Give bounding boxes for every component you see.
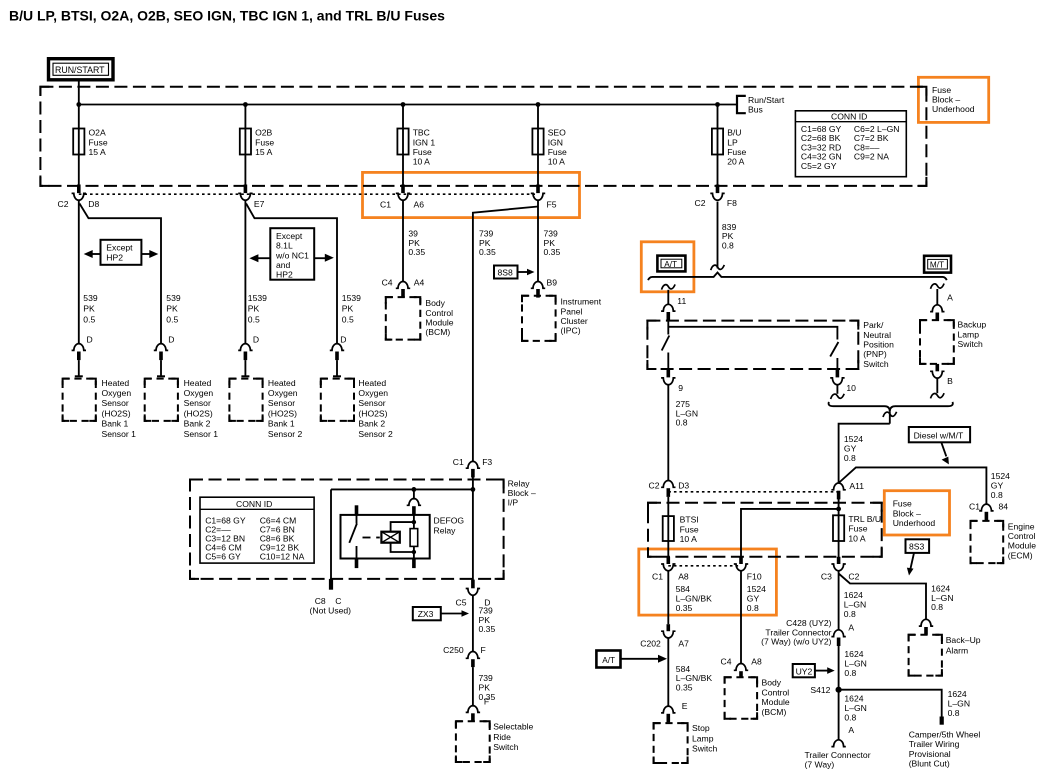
fuse B/U LP 20A	[712, 105, 747, 185]
svg-text:(7 Way): (7 Way)	[805, 760, 835, 770]
highlight box: Fuse Block Underhood (top right)	[918, 77, 988, 122]
option tag M/T	[924, 256, 951, 273]
svg-text:1539: 1539	[248, 293, 267, 303]
svg-text:0.35: 0.35	[408, 247, 425, 257]
option tag Diesel w/M/T	[909, 427, 970, 464]
wire merge brace	[829, 402, 953, 412]
svg-text:0.35: 0.35	[544, 247, 561, 257]
svg-text:D: D	[168, 335, 174, 345]
svg-text:0.5: 0.5	[342, 314, 354, 324]
svg-text:0.8: 0.8	[844, 453, 856, 463]
svg-text:BTSI: BTSI	[680, 515, 699, 525]
wire C2 to A (1624 L-GN 0.8)	[838, 571, 840, 630]
wire break A/T branch	[662, 284, 676, 289]
svg-text:0.8: 0.8	[844, 609, 856, 619]
fuse SEO IGN 10A	[532, 105, 567, 185]
connector C5/D	[456, 580, 491, 608]
svg-text:C1: C1	[652, 572, 663, 582]
svg-text:Position: Position	[863, 340, 894, 350]
connector D (branch 4)	[330, 335, 347, 377]
svg-text:C2: C2	[695, 198, 706, 208]
svg-text:C8: C8	[315, 596, 326, 606]
relay resistor	[413, 515, 415, 529]
svg-text:0.5: 0.5	[248, 314, 260, 324]
connector C2/D8	[58, 185, 100, 210]
svg-text:w/o NC1: w/o NC1	[275, 250, 309, 260]
svg-text:Alarm: Alarm	[946, 645, 968, 655]
Body Control Module (BCM)	[386, 297, 454, 340]
fuse BTSI 10A	[663, 515, 699, 544]
Body Control Module (BCM) lower	[725, 677, 790, 718]
splice 8S8	[494, 266, 535, 279]
svg-text:F10: F10	[747, 572, 762, 582]
RUN/START source box	[49, 59, 114, 80]
svg-text:O2A: O2A	[89, 128, 106, 138]
svg-text:C2: C2	[848, 572, 859, 582]
connector C4/A8 (BCM)	[721, 656, 763, 678]
svg-text:Lamp: Lamp	[958, 329, 980, 339]
svg-text:C2: C2	[649, 481, 660, 491]
svg-text:CONN ID: CONN ID	[236, 499, 272, 509]
svg-text:Oxygen: Oxygen	[102, 388, 132, 398]
svg-text:539: 539	[83, 293, 98, 303]
Relay Block - I/P dashed outline	[190, 480, 504, 579]
svg-text:A6: A6	[414, 200, 425, 210]
svg-text:Trailer Wiring: Trailer Wiring	[909, 739, 960, 749]
svg-text:0.8: 0.8	[676, 418, 688, 428]
label: Camper/5th Wheel Trailer Wiring Provisional (Blunt Cut)	[909, 730, 981, 769]
relay coil link dashes	[363, 537, 371, 539]
wire D3 to BTSI fuse	[667, 497, 669, 516]
svg-text:Sensor 2: Sensor 2	[268, 429, 303, 439]
connector F5	[531, 185, 557, 210]
relay coil	[381, 532, 399, 543]
svg-text:Run/Start: Run/Start	[748, 95, 785, 105]
CONN ID table (Relay Block I/P)	[200, 497, 314, 563]
wire 739 PK 0.35 (C5 to C250)	[472, 595, 474, 652]
svg-text:C1: C1	[380, 200, 391, 210]
svg-text:Sensor 1: Sensor 1	[102, 429, 137, 439]
svg-text:C10=12 NA: C10=12 NA	[260, 552, 305, 562]
svg-text:Bank 2: Bank 2	[184, 419, 211, 429]
svg-text:TBC: TBC	[413, 128, 430, 138]
svg-text:(HO2S): (HO2S)	[184, 408, 213, 418]
svg-text:Park/: Park/	[863, 320, 884, 330]
svg-text:0.8: 0.8	[722, 241, 734, 251]
svg-text:A/T: A/T	[664, 260, 677, 269]
node: bus tap B/U LP	[715, 102, 720, 107]
svg-text:Provisional: Provisional	[909, 749, 951, 759]
svg-text:Fuse: Fuse	[848, 524, 867, 534]
Heated Oxygen Sensor Bank 1 Sensor 1	[63, 378, 137, 439]
wire label 1539 PK 0.5 (branch 4)	[342, 293, 361, 324]
svg-text:0.35: 0.35	[676, 603, 693, 613]
svg-text:F5: F5	[547, 200, 557, 210]
svg-text:Fuse: Fuse	[680, 524, 699, 534]
svg-text:(ECM): (ECM)	[1008, 550, 1033, 560]
svg-text:8S8: 8S8	[498, 268, 514, 278]
svg-text:F3: F3	[482, 457, 492, 467]
svg-text:C1: C1	[453, 457, 464, 467]
splice ZX3	[413, 607, 469, 620]
svg-text:S412: S412	[810, 685, 830, 695]
svg-text:Fuse: Fuse	[255, 137, 274, 147]
svg-text:Fuse: Fuse	[548, 147, 567, 157]
svg-text:(HO2S): (HO2S)	[358, 408, 387, 418]
svg-text:10: 10	[846, 383, 856, 393]
svg-text:11: 11	[677, 296, 686, 306]
wire PNP internal bus	[667, 321, 669, 334]
svg-text:C9=2 NA: C9=2 NA	[854, 152, 889, 162]
svg-text:Lamp: Lamp	[692, 733, 714, 743]
svg-text:RUN/START: RUN/START	[55, 65, 105, 75]
svg-text:HP2: HP2	[106, 252, 123, 262]
wire BTSI to A8	[667, 541, 669, 557]
wire break below brace	[889, 411, 891, 423]
label: Fuse Block - Underhood (lower)	[893, 499, 936, 528]
svg-text:C5: C5	[456, 597, 467, 607]
svg-text:539: 539	[166, 293, 181, 303]
svg-text:B: B	[947, 376, 953, 386]
svg-text:Cluster: Cluster	[561, 316, 588, 326]
option box: Except HP2	[84, 240, 159, 265]
svg-text:Bus: Bus	[748, 104, 763, 114]
svg-text:A4: A4	[414, 277, 425, 287]
Back-Up Alarm	[909, 635, 981, 676]
svg-text:Trailer Connector: Trailer Connector	[805, 750, 871, 760]
svg-text:Bank 2: Bank 2	[358, 419, 385, 429]
svg-text:UY2: UY2	[796, 666, 813, 676]
svg-text:Module: Module	[762, 697, 790, 707]
svg-text:Heated: Heated	[102, 378, 130, 388]
svg-text:0.35: 0.35	[479, 247, 496, 257]
highlight box: connectors A8-F10	[639, 549, 777, 615]
svg-text:Back–Up: Back–Up	[946, 635, 981, 645]
svg-text:(IPC): (IPC)	[561, 326, 581, 336]
svg-text:Neutral: Neutral	[863, 330, 891, 340]
svg-text:(BCM): (BCM)	[425, 327, 450, 337]
svg-text:84: 84	[999, 501, 1009, 511]
connector D (branch 1)	[72, 335, 93, 377]
Heated Oxygen Sensor Bank 1 Sensor 2	[229, 378, 302, 439]
Stop Lamp Switch	[654, 723, 718, 763]
connector C202/A7	[640, 624, 689, 648]
wire relay block feed	[331, 488, 473, 490]
svg-text:F: F	[481, 645, 486, 655]
wire C8 (not used)	[330, 489, 332, 579]
svg-text:A8: A8	[751, 656, 762, 666]
svg-text:1539: 1539	[342, 293, 361, 303]
connector B9	[531, 277, 557, 297]
connector C2/D3	[649, 481, 690, 497]
svg-text:PK: PK	[248, 304, 260, 314]
svg-text:0.8: 0.8	[931, 602, 943, 612]
svg-text:CONN ID: CONN ID	[831, 112, 867, 122]
svg-text:B/U LP, BTSI, O2A, O2B, SEO IG: B/U LP, BTSI, O2A, O2B, SEO IGN, TBC IGN…	[9, 8, 445, 24]
svg-text:Bank 1: Bank 1	[268, 419, 295, 429]
svg-text:SEO: SEO	[548, 128, 566, 138]
svg-text:Block –: Block –	[893, 508, 921, 518]
wire E7 split to branch 4	[246, 204, 337, 344]
svg-text:8S3: 8S3	[909, 542, 925, 552]
wire S412 to trailer connector	[838, 690, 840, 740]
svg-text:and: and	[276, 260, 291, 270]
svg-text:I/P: I/P	[508, 498, 519, 508]
svg-text:A7: A7	[678, 638, 689, 648]
svg-text:0.5: 0.5	[166, 314, 178, 324]
svg-text:D: D	[340, 335, 346, 345]
svg-text:C1: C1	[969, 501, 980, 511]
svg-text:O2B: O2B	[255, 128, 272, 138]
svg-text:PK: PK	[83, 304, 95, 314]
svg-text:F: F	[484, 697, 489, 707]
svg-text:Fuse: Fuse	[727, 147, 746, 157]
in-line connector row dotted line	[79, 193, 538, 195]
svg-text:Block –: Block –	[508, 488, 536, 498]
switch contact 11-9	[662, 336, 670, 351]
svg-text:(7 Way) (w/o UY2): (7 Way) (w/o UY2)	[761, 636, 831, 646]
connector A (trailer connector)	[831, 725, 854, 747]
svg-text:Sensor: Sensor	[358, 398, 385, 408]
svg-text:0.8: 0.8	[844, 668, 856, 678]
svg-text:0.5: 0.5	[83, 314, 95, 324]
svg-text:0.8: 0.8	[948, 708, 960, 718]
highlight box: connectors A6-F5	[363, 172, 580, 217]
svg-text:C202: C202	[640, 638, 661, 648]
svg-text:Heated: Heated	[268, 378, 296, 388]
svg-text:PK: PK	[166, 304, 178, 314]
wire 739 PK 0.35 (C250 to switch)	[472, 667, 474, 707]
svg-text:10 A: 10 A	[848, 533, 865, 543]
connector: defog relay coil feed	[407, 489, 421, 515]
svg-text:TRL B/U: TRL B/U	[848, 514, 881, 524]
connector E	[661, 701, 688, 722]
svg-text:Switch: Switch	[958, 339, 984, 349]
wire to backup lamp switch	[936, 289, 938, 305]
svg-text:C3: C3	[821, 572, 832, 582]
node: coil/resistor bottom	[412, 550, 416, 554]
highlight box: Fuse Block Underhood (TRL B/U)	[884, 491, 949, 535]
Heated Oxygen Sensor Bank 2 Sensor 1	[145, 378, 219, 439]
wire A11 to TRL B/U fuse	[838, 497, 840, 515]
svg-text:LP: LP	[727, 137, 738, 147]
connector A11	[831, 481, 864, 499]
svg-text:Body: Body	[425, 298, 445, 308]
svg-text:Oxygen: Oxygen	[358, 388, 388, 398]
wire 584 L-GN/BK 0.35 (A7 to stop lamp switch)	[667, 638, 669, 707]
svg-text:Camper/5th Wheel: Camper/5th Wheel	[909, 730, 981, 740]
in-line connector dotted line D3-A11	[668, 491, 838, 493]
svg-text:E: E	[682, 701, 688, 711]
splice S412	[836, 687, 842, 693]
svg-text:8.1L: 8.1L	[276, 241, 293, 251]
svg-text:D3: D3	[678, 481, 689, 491]
wire C2 to back-up alarm (1624 L-GN 0.8)	[839, 574, 926, 620]
highlight box: A/T option	[641, 242, 694, 292]
svg-text:Switch: Switch	[692, 744, 718, 754]
svg-text:(HO2S): (HO2S)	[102, 408, 131, 418]
connector C4/A4	[382, 277, 425, 297]
option tag A/T (stop lamp feed)	[596, 651, 667, 668]
svg-text:Heated: Heated	[184, 378, 212, 388]
node: bus tap TBC	[401, 102, 406, 107]
connector C1/A8	[652, 557, 689, 582]
switch contact 11-10	[830, 342, 838, 357]
node: main wire junction	[471, 487, 476, 492]
wire 1524 GY 0.8 to A11	[839, 424, 890, 483]
svg-text:Oxygen: Oxygen	[184, 388, 214, 398]
fuse O2A 15A	[73, 105, 108, 185]
Fuse Block - Underhood (top) dashed outline	[40, 87, 926, 186]
svg-text:HP2: HP2	[276, 270, 293, 280]
svg-text:10 A: 10 A	[680, 534, 697, 544]
svg-text:IGN: IGN	[548, 137, 563, 147]
svg-text:A/T: A/T	[602, 656, 615, 665]
svg-text:Sensor 2: Sensor 2	[358, 429, 393, 439]
connector C1/A6	[380, 185, 424, 210]
connector B	[930, 364, 953, 399]
svg-text:Stop: Stop	[692, 723, 710, 733]
svg-text:Selectable: Selectable	[493, 722, 533, 732]
svg-text:Sensor: Sensor	[268, 398, 295, 408]
svg-text:0.35: 0.35	[479, 624, 496, 634]
svg-text:D8: D8	[88, 199, 99, 209]
connector A (backup lamp switch)	[930, 293, 953, 321]
svg-text:Fuse: Fuse	[89, 137, 108, 147]
label: C428 (UY2) Trailer Connector (7 Way) (w/o UY2)	[761, 618, 831, 646]
svg-text:D: D	[87, 335, 93, 345]
svg-text:Switch: Switch	[493, 742, 519, 752]
wire break at options split	[711, 265, 725, 270]
svg-text:Body: Body	[762, 678, 782, 688]
svg-text:10 A: 10 A	[413, 157, 430, 167]
svg-text:Except: Except	[106, 243, 133, 253]
svg-text:Ride: Ride	[493, 732, 511, 742]
wire 39 PK 0.35 (TBC IGN 1 to BCM)	[402, 200, 404, 281]
option tag A/T	[657, 256, 685, 272]
Run/Start Bus tap bracket	[737, 96, 746, 113]
connector C1/F3	[453, 457, 493, 478]
svg-text:Bank 1: Bank 1	[102, 419, 129, 429]
svg-text:C5=2 GY: C5=2 GY	[801, 161, 837, 171]
node: coil/resistor top	[412, 520, 416, 524]
svg-text:Oxygen: Oxygen	[268, 388, 298, 398]
wire RUN/START to bus	[78, 80, 80, 105]
CONN ID table (Fuse Block Underhood)	[795, 111, 906, 177]
Heated Oxygen Sensor Bank 2 Sensor 2	[321, 378, 393, 439]
wire 539 PK branch 1	[78, 200, 80, 343]
connector 11	[661, 296, 686, 322]
option box: Except 8.1L w/o NC1 and HP2	[249, 228, 333, 280]
wire A to S412	[838, 646, 840, 690]
Fuse Block - Underhood (lower) dashed outline	[648, 503, 882, 557]
svg-text:Engine: Engine	[1008, 521, 1035, 531]
svg-text:Switch: Switch	[863, 359, 889, 369]
splice 8S3	[906, 539, 930, 575]
svg-text:0.8: 0.8	[747, 603, 759, 613]
svg-text:Underhood: Underhood	[932, 104, 975, 114]
wire options split A/T - M/T	[648, 273, 947, 281]
connector F (switch)	[466, 706, 480, 722]
svg-text:PK: PK	[342, 304, 354, 314]
svg-text:DEFOG: DEFOG	[434, 515, 465, 525]
Run/Start Bus wire	[79, 104, 737, 106]
Instrument Panel Cluster (IPC)	[522, 296, 602, 341]
connector 9	[661, 378, 683, 393]
svg-text:A: A	[848, 622, 854, 632]
node: TRL feed tap	[836, 507, 841, 512]
label: Relay Block - I/P	[508, 478, 536, 507]
wire label 539 PK 0.5 (branch 2)	[166, 293, 181, 324]
svg-text:Sensor: Sensor	[184, 398, 211, 408]
svg-text:Underhood: Underhood	[893, 518, 936, 528]
fuse TBC IGN 1 10A	[397, 105, 435, 185]
svg-text:0.8: 0.8	[991, 490, 1003, 500]
svg-text:C5=6 GY: C5=6 GY	[205, 552, 241, 562]
svg-text:M/T: M/T	[930, 260, 944, 269]
connector D (branch 3)	[238, 335, 259, 377]
DEFOG Relay	[341, 505, 465, 568]
connector C1/84 (ECM)	[969, 501, 1008, 520]
svg-text:0.8: 0.8	[844, 713, 856, 723]
svg-text:B/U: B/U	[727, 128, 741, 138]
wire TRL tap to F10	[741, 509, 839, 557]
wire TRL fuse to C2	[838, 541, 840, 557]
svg-text:C4: C4	[382, 277, 393, 287]
fuse O2B 15A	[240, 105, 275, 185]
wire 584 L-GN/BK 0.35 (A8 to C202)	[667, 571, 669, 624]
wire D8 split to branch 2	[80, 204, 162, 344]
connector A (trailer harness)	[831, 622, 854, 646]
relay pin 1 (switch, top)	[355, 505, 359, 515]
svg-text:C250: C250	[443, 645, 464, 655]
svg-text:A: A	[848, 725, 854, 735]
Engine Control Module (ECM)	[971, 521, 1037, 563]
svg-text:Control: Control	[762, 687, 790, 697]
svg-text:0.35: 0.35	[676, 683, 693, 693]
connector 10	[830, 378, 856, 399]
label: Trailer Connector (7 Way)	[805, 750, 871, 770]
wire break M/T branch	[931, 284, 945, 289]
svg-text:B9: B9	[547, 277, 558, 287]
svg-text:(Blunt Cut): (Blunt Cut)	[909, 759, 950, 769]
svg-text:Module: Module	[1008, 541, 1036, 551]
connector C250/F	[443, 645, 486, 667]
Park/Neutral Position (PNP) Switch	[647, 320, 894, 377]
svg-text:Fuse: Fuse	[893, 499, 912, 509]
svg-text:Panel: Panel	[561, 306, 583, 316]
svg-text:15 A: 15 A	[255, 147, 272, 157]
fuse TRL B/U 10A	[833, 514, 881, 543]
connector C3/C2	[821, 557, 860, 582]
connector C2/F8	[695, 185, 738, 209]
svg-text:Control: Control	[1008, 531, 1036, 541]
svg-text:(PNP): (PNP)	[863, 349, 887, 359]
svg-text:Module: Module	[425, 318, 453, 328]
svg-text:15 A: 15 A	[89, 147, 106, 157]
svg-text:(Not Used): (Not Used)	[310, 605, 352, 615]
svg-text:C2: C2	[58, 199, 69, 209]
svg-text:D: D	[253, 335, 259, 345]
svg-text:Instrument: Instrument	[561, 297, 602, 307]
svg-text:A11: A11	[849, 481, 864, 491]
wire label 1539 PK 0.5 (branch 3)	[248, 293, 267, 324]
connector (back-up alarm)	[919, 619, 933, 634]
svg-text:C: C	[335, 596, 341, 606]
svg-text:Relay: Relay	[434, 526, 457, 536]
option tag UY2	[793, 664, 835, 677]
svg-text:20 A: 20 A	[727, 157, 744, 167]
